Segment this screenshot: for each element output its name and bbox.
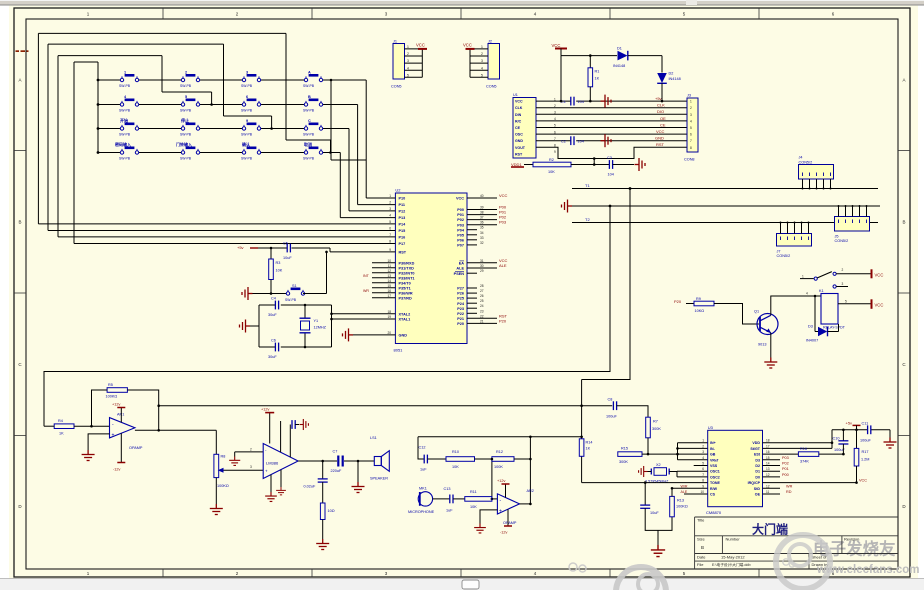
wire: keypad column net 4 (331, 80, 366, 160)
junction dots audio rails (529, 404, 583, 438)
capacitor C5 10uF (283, 241, 292, 259)
junction dots bus (609, 187, 868, 223)
transistor Q1 9013 (754, 310, 778, 347)
svg-text:R11: R11 (470, 490, 477, 494)
svg-text:10Ω: 10Ω (328, 509, 335, 513)
relay pin 5 to VCC (838, 299, 883, 309)
svg-text:SW-PB: SW-PB (180, 156, 192, 160)
svg-text:SW-PB: SW-PB (119, 132, 131, 136)
svg-text:EA: EA (459, 261, 465, 265)
svg-text:CM8870: CM8870 (706, 510, 722, 515)
wire: pin2 input (235, 452, 264, 457)
svg-text:A: A (308, 71, 311, 75)
svg-text:RD: RD (786, 490, 792, 494)
svg-text:2: 2 (690, 106, 692, 110)
svg-text:XTAL2: XTAL2 (399, 312, 411, 316)
U2 right pin numbers (480, 194, 484, 323)
svg-text:IN+: IN+ (710, 441, 716, 445)
wire: +5v to RST node (258, 248, 378, 252)
svg-text:IN-: IN- (710, 447, 716, 451)
capacitor C14 10uF (640, 505, 659, 515)
svg-text:密码输入: 密码输入 (114, 141, 131, 147)
wire: fb rail drop to C12 (418, 437, 424, 459)
svg-text:CS: CS (710, 493, 716, 497)
capacitor C8 100uF (606, 398, 617, 419)
wire: C3 to ground (613, 164, 634, 166)
wire: U1 row 8 jog to J3 pin 8 (536, 147, 687, 158)
svg-text:CE: CE (660, 122, 666, 127)
switch S14 keypad r4c1 "密码输入" (114, 141, 139, 160)
svg-text:R8: R8 (221, 455, 226, 459)
svg-text:T1: T1 (585, 183, 590, 188)
svg-text:4: 4 (702, 456, 704, 460)
svg-text:P03: P03 (782, 456, 789, 460)
U3 left pin numbers (700, 439, 704, 494)
svg-text:16: 16 (387, 289, 391, 293)
svg-text:R7: R7 (653, 420, 658, 424)
svg-text:P03: P03 (499, 220, 507, 225)
wire: feedback rail (y436.8) (418, 436, 582, 438)
svg-text:CON8: CON8 (684, 158, 695, 162)
power stub -12v AR1 (113, 433, 125, 471)
svg-text:R1: R1 (595, 70, 600, 74)
switch S2 keypad r1c1 "1" (119, 71, 139, 88)
svg-text:B: B (902, 220, 905, 225)
svg-text:3: 3 (389, 207, 391, 211)
svg-text:104: 104 (578, 140, 584, 144)
svg-text:SW-PB: SW-PB (303, 156, 315, 160)
svg-text:5: 5 (845, 299, 847, 303)
wire: C14 branch (644, 483, 646, 506)
svg-text:OSC2: OSC2 (710, 475, 720, 479)
ground at LM386 pin7 (276, 487, 286, 495)
svg-text:100KΩ: 100KΩ (676, 505, 688, 509)
svg-text:2: 2 (250, 447, 252, 451)
svg-text:File: File (697, 562, 704, 567)
svg-text:RELAY-SPDT: RELAY-SPDT (823, 326, 846, 330)
power port +5v reset (237, 245, 258, 250)
svg-text:GND: GND (655, 136, 664, 141)
svg-text:C12: C12 (419, 446, 426, 450)
svg-text:28: 28 (480, 284, 484, 288)
svg-text:P20: P20 (674, 299, 682, 304)
svg-text:P03: P03 (457, 223, 464, 227)
window top bar (0, 0, 924, 6)
svg-text:9: 9 (554, 150, 556, 154)
op-amp AR2 LM386 (263, 444, 298, 479)
chip U2 8051 body (394, 188, 468, 353)
svg-text:P37/RD: P37/RD (399, 296, 413, 300)
svg-text:ESt: ESt (754, 453, 761, 457)
svg-text:P21: P21 (457, 317, 464, 321)
resistor R13 100K (670, 488, 688, 517)
svg-text:R3: R3 (276, 261, 281, 265)
wire: VDD/StGT vertical x832 (831, 430, 833, 449)
junction dots U3 right (831, 429, 858, 484)
svg-text:C7: C7 (333, 450, 338, 454)
svg-text:VCC: VCC (552, 43, 561, 48)
svg-text:10uF: 10uF (650, 511, 659, 515)
junction dot R13/pin9 (671, 487, 674, 490)
wire: keypad common bracket (74, 62, 378, 244)
wire: R13 top to pin9 row (672, 487, 708, 489)
svg-text:D0: D0 (755, 475, 760, 479)
stub pin 8 + bypass cap to ground (290, 419, 308, 457)
svg-text:30: 30 (480, 264, 484, 268)
relay contact pin 2 to VCC (833, 268, 883, 278)
op-amp AR1 (110, 413, 143, 451)
svg-text:U1: U1 (513, 93, 518, 97)
svg-text:18: 18 (766, 439, 770, 443)
wire: AR3 +input to ground (480, 510, 497, 524)
wire: J1 pins to VCC (405, 49, 423, 77)
svg-text:P12: P12 (399, 210, 406, 214)
svg-text:R16: R16 (800, 447, 807, 451)
svg-text:104: 104 (578, 100, 584, 104)
svg-text:10: 10 (387, 259, 391, 263)
wire: R9 to Q1 base (714, 304, 759, 325)
svg-text:PSEN: PSEN (454, 272, 465, 276)
capacitor C2 104 on row 7 (561, 136, 584, 145)
svg-text:J5: J5 (835, 234, 839, 238)
svg-text:OSC1: OSC1 (710, 470, 720, 474)
svg-text:ALE: ALE (456, 267, 464, 271)
resistor R7 300K (646, 417, 662, 454)
wire: J4 pins down to bus T1 (803, 179, 831, 189)
svg-text:W/R: W/R (681, 484, 688, 488)
svg-text:OSC: OSC (515, 133, 523, 137)
svg-text:Revision: Revision (844, 537, 859, 542)
svg-text:INT: INT (363, 274, 370, 278)
svg-text:ALE: ALE (681, 490, 688, 494)
title block texts (697, 518, 859, 568)
U3 right wires + numbers + labels (763, 443, 857, 494)
wire: AR1 +input to ground (88, 434, 109, 450)
wire: net D (y405.7) row (159, 405, 613, 407)
switch S8 keypad r2c3 "6" (241, 95, 261, 112)
ground at Q1 emitter (764, 358, 777, 369)
wire: R2 to C3 (571, 159, 609, 165)
svg-text:100uF: 100uF (860, 439, 871, 443)
svg-text:CLK: CLK (515, 106, 523, 110)
svg-text:37: 37 (480, 216, 484, 220)
resistor R9 10K (694, 297, 714, 313)
wire: bus T1 (y188.5) (572, 188, 878, 190)
wire: R15 row to U3 pins 1-4 (642, 443, 708, 460)
svg-text:U2: U2 (395, 188, 401, 193)
capacitor C7 220uF (331, 450, 343, 473)
junction dot R2/C3 node (593, 163, 596, 166)
svg-text:GND: GND (515, 139, 523, 143)
zobel network C 0.02uF + R 10Ω (304, 461, 335, 539)
U2 right pin names (454, 197, 465, 326)
svg-text:VCC: VCC (515, 100, 523, 104)
wire: VCC rail to D1 (561, 56, 617, 102)
svg-text:300K: 300K (619, 460, 628, 464)
net label WR at pin 16 (363, 289, 369, 293)
svg-text:100KΩ: 100KΩ (106, 395, 118, 399)
wire: keypad column net 1 (top loop) (58, 56, 378, 237)
svg-text:SW-PB: SW-PB (180, 84, 192, 88)
svg-text:WR: WR (786, 484, 793, 488)
svg-text:12: 12 (766, 484, 770, 488)
svg-text:LM386: LM386 (266, 461, 279, 466)
svg-text:SW-PB: SW-PB (303, 84, 315, 88)
capacitor C10 100uF (833, 430, 849, 454)
ground (left-pointing) at pin 20 (343, 328, 354, 341)
svg-text:10K: 10K (470, 505, 477, 509)
svg-text:35: 35 (480, 226, 484, 230)
svg-text:IRQ/CP: IRQ/CP (748, 481, 761, 485)
U2 left pin numbers (387, 194, 391, 335)
wire: vertical x581.6 to TONE (581, 380, 583, 483)
svg-text:220uF: 220uF (331, 469, 342, 473)
diode D1 IN4148 (613, 46, 628, 68)
switch S5 keypad r1c4 "A" (303, 71, 323, 88)
svg-text:1: 1 (690, 100, 692, 104)
svg-text:+5v: +5v (237, 245, 244, 250)
svg-text:D2: D2 (669, 72, 674, 76)
ground (right-pointing) on row 7 (601, 134, 612, 147)
ground (right-pointing) on +5v row (601, 95, 612, 108)
svg-text:100KΩ: 100KΩ (217, 484, 229, 488)
svg-text:J4: J4 (799, 156, 803, 160)
switch S3 keypad r1c2 "2" (180, 71, 200, 88)
svg-text:1K: 1K (59, 432, 64, 436)
wire: GND pin 20 (353, 334, 378, 336)
svg-text:18: 18 (387, 310, 391, 314)
svg-text:9: 9 (246, 119, 248, 123)
svg-text:St/GT: St/GT (750, 447, 760, 451)
resistor R4 1K (44, 419, 110, 436)
svg-text:6: 6 (246, 95, 248, 99)
svg-text:26: 26 (480, 294, 484, 298)
junction dots output node (321, 460, 359, 463)
svg-text:C3: C3 (607, 156, 612, 160)
svg-text:12MHZ: 12MHZ (314, 326, 327, 330)
svg-text:15: 15 (766, 456, 770, 460)
svg-text:RST: RST (399, 251, 407, 255)
svg-text:SPEAKER: SPEAKER (370, 476, 388, 480)
svg-text:16: 16 (766, 450, 770, 454)
svg-text:A: A (902, 78, 905, 83)
svg-text:XTAL1: XTAL1 (399, 318, 411, 322)
svg-text:27: 27 (480, 289, 484, 293)
ground below speaker wire (352, 482, 365, 493)
svg-text:+12v: +12v (112, 403, 120, 407)
svg-text:D1: D1 (755, 470, 760, 474)
svg-text:门铃输入: 门铃输入 (176, 141, 192, 147)
svg-text:J1: J1 (393, 40, 397, 44)
svg-text:P26: P26 (457, 292, 464, 296)
wire: LM386 output (298, 460, 337, 462)
resistor R16 374K (798, 447, 843, 464)
svg-text:P00: P00 (782, 473, 789, 477)
junction dot TONE/C14 (644, 481, 647, 484)
wire: crystal loop (250, 305, 378, 347)
svg-text:D3: D3 (755, 458, 760, 462)
svg-text:20: 20 (387, 331, 391, 335)
svg-text:P30/RXD: P30/RXD (399, 261, 415, 265)
svg-text:1uF: 1uF (446, 509, 453, 513)
svg-text:100uF: 100uF (606, 415, 617, 419)
svg-text:SW-PB: SW-PB (303, 132, 315, 136)
svg-text:OPAMP: OPAMP (129, 446, 143, 450)
junction dots mic amp (491, 458, 532, 506)
svg-text:CON5/2: CON5/2 (777, 254, 791, 258)
svg-text:SW-PB: SW-PB (119, 84, 131, 88)
svg-text:32: 32 (480, 241, 484, 245)
svg-text:Date: Date (697, 555, 706, 560)
svg-text:B: B (18, 220, 21, 225)
switch S9 keypad r2c4 "B" (303, 95, 323, 112)
svg-text:R4: R4 (58, 419, 63, 423)
svg-text:P25: P25 (457, 297, 464, 301)
microphone MK1 (408, 486, 435, 514)
svg-text:OE: OE (755, 493, 761, 497)
capacitor C12 1uF (419, 446, 428, 472)
svg-text:IN4007: IN4007 (806, 338, 818, 342)
svg-text:29: 29 (480, 269, 484, 273)
svg-text:30uF: 30uF (268, 355, 277, 359)
svg-text:1K: 1K (586, 447, 591, 451)
svg-text:R10: R10 (452, 450, 459, 454)
svg-text:OPAMP: OPAMP (503, 521, 517, 525)
resistor R3 10K (269, 248, 283, 294)
svg-text:+12v: +12v (261, 408, 269, 412)
title block lines (695, 517, 898, 569)
svg-text:J2: J2 (488, 40, 492, 44)
svg-text:IN4148: IN4148 (669, 77, 681, 81)
svg-text:VDD: VDD (752, 441, 760, 445)
wire: keypad row 2 bus (98, 105, 378, 205)
junction dots U1 cluster (560, 54, 664, 160)
wire: long audio net A (y371.5) (44, 206, 610, 426)
ground at zobel bottom (316, 539, 329, 550)
svg-text:13: 13 (387, 274, 391, 278)
svg-text:P36/WR: P36/WR (399, 291, 413, 295)
connector J7 CON5/2 (777, 234, 812, 259)
svg-text:6: 6 (389, 227, 391, 231)
relay contact pin 3 (833, 282, 848, 288)
svg-text:CE: CE (515, 126, 521, 130)
stub pin 1 (280, 421, 282, 452)
svg-text:P15: P15 (399, 229, 406, 233)
resistor R14 1K (579, 439, 592, 457)
svg-text:10uF: 10uF (283, 256, 292, 260)
svg-text:C10: C10 (833, 436, 840, 440)
svg-text:9: 9 (389, 248, 391, 252)
svg-text:S1: S1 (292, 284, 297, 288)
svg-text:TONE: TONE (710, 481, 721, 485)
svg-text:17: 17 (387, 294, 391, 298)
wire: U3 pin10 stub (684, 493, 708, 495)
svg-text:J3: J3 (687, 94, 691, 98)
svg-text:24: 24 (480, 304, 484, 308)
svg-text:P20: P20 (499, 318, 507, 323)
ground at U3 bottom rail (651, 545, 665, 557)
svg-text:2: 2 (842, 268, 844, 272)
wire: U3 pin5 stub (694, 465, 708, 467)
wire: keypad row 3 bus (98, 129, 378, 211)
svg-text:C8: C8 (608, 398, 613, 402)
wire: keypad column net 3 (top loop) (38, 33, 377, 224)
diode D2 IN4148 (657, 72, 681, 84)
svg-text:6: 6 (702, 467, 704, 471)
resistor R2 10K (533, 158, 571, 174)
watermark logo swirl right (776, 535, 830, 589)
potentiometer R8 100K (214, 430, 263, 504)
svg-text:StD: StD (754, 487, 761, 491)
diode D3 IN4007 flyback (806, 296, 839, 342)
svg-text:+12v: +12v (497, 479, 505, 483)
wire: R12 to output vert (514, 437, 530, 504)
wire: C12 to R10 (428, 458, 446, 460)
svg-text:8: 8 (389, 240, 391, 244)
svg-text:SW-PB: SW-PB (285, 298, 297, 302)
svg-text:P05: P05 (457, 233, 464, 237)
svg-text:5: 5 (185, 95, 187, 99)
svg-text:8: 8 (690, 146, 692, 150)
svg-text:25: 25 (480, 299, 484, 303)
svg-text:36: 36 (480, 221, 484, 225)
svg-text:7: 7 (702, 473, 704, 477)
wire: J7 pins up to bus T2 (781, 223, 809, 234)
wire: C14 to R13 bottom rail (645, 508, 672, 530)
svg-text:P04: P04 (457, 228, 465, 232)
svg-text:VCC: VCC (416, 43, 425, 48)
svg-text:5: 5 (702, 462, 704, 466)
red mark on left border (16, 50, 29, 52)
switch S15 keypad r4c2 "门铃输入" (176, 141, 200, 160)
power stub +12v AR1 (112, 403, 125, 423)
svg-text:VSS: VSS (710, 464, 718, 468)
svg-text:R2: R2 (549, 158, 554, 162)
wire: S1 to RST (303, 252, 327, 294)
svg-text:MICROPHONE: MICROPHONE (408, 510, 435, 514)
svg-text:取消: 取消 (304, 141, 312, 147)
svg-text:39: 39 (480, 206, 484, 210)
svg-text:33: 33 (480, 236, 484, 240)
svg-text:Size: Size (697, 537, 706, 542)
stubs LM386 bottom to grounds (271, 470, 281, 492)
wire: U1 rows 1-7 to J3 (536, 101, 687, 141)
chip U1 (513, 93, 556, 158)
svg-text:4: 4 (806, 292, 808, 296)
svg-text:VCC: VCC (463, 43, 472, 48)
svg-text:14: 14 (766, 462, 770, 466)
svg-text:1: 1 (802, 275, 804, 279)
svg-text:D2: D2 (755, 464, 760, 468)
switch S10 keypad r3c1 "开始" (119, 117, 139, 136)
relay contact arm (817, 272, 832, 278)
ground at LM386 pin2 (229, 457, 240, 466)
U3 left pin names (710, 441, 721, 496)
svg-text:P20: P20 (457, 322, 464, 326)
connector J3 CON8 (684, 94, 698, 162)
svg-text:Title: Title (697, 518, 705, 523)
svg-text:1: 1 (389, 194, 391, 198)
svg-text:P32/INT0: P32/INT0 (399, 271, 415, 275)
crystal Y1 12MHZ (300, 318, 327, 333)
junction dots reset (270, 247, 328, 295)
op-amp AR3 (497, 489, 533, 525)
overlines for EA PSEN (455, 261, 464, 271)
svg-text:1K: 1K (595, 77, 600, 81)
junction dots U3 input (647, 447, 679, 455)
svg-text:-12v: -12v (500, 531, 507, 535)
svg-text:+: + (265, 469, 268, 474)
